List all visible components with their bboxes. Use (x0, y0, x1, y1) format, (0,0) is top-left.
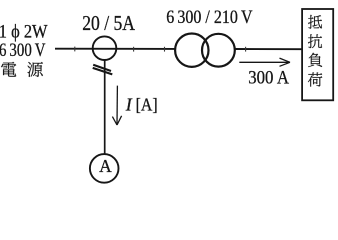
ammeter instrument circle (90, 154, 119, 183)
arrow: secondary current I direction (down) (116, 86, 118, 125)
source label kanji: DEN (electric) (1, 62, 16, 77)
svg-text:I: I (125, 94, 133, 114)
transformer T primary winding circle (175, 34, 208, 67)
svg-text:6 300 / 210 V: 6 300 / 210 V (166, 8, 253, 28)
CT secondary two-conductor slash mark 2 (93, 68, 113, 75)
svg-text:300 A: 300 A (248, 68, 289, 89)
wire: CT secondary drop to ammeter (104, 60, 106, 155)
svg-text:6 300 V: 6 300 V (0, 41, 46, 61)
junction tick on wire (mid-left) (133, 47, 135, 52)
arrow: load current direction 300A (239, 61, 290, 63)
svg-text:[A]: [A] (136, 94, 158, 114)
load kanji 3: FU (308, 53, 322, 67)
source label kanji: GEN (source) (27, 62, 42, 77)
junction tick on wire (mid-right) (164, 47, 166, 52)
load kanji 2: KOU (308, 34, 322, 48)
wire: source to transformer primary (through CT) (55, 48, 175, 50)
junction tick on wire (right) (245, 47, 247, 52)
transformer T secondary winding circle (202, 34, 235, 67)
load kanji 4: KA (308, 72, 322, 86)
svg-text:20 / 5A: 20 / 5A (82, 11, 135, 35)
load kanji 1: TEI (308, 15, 322, 29)
load box outline (resistive load) (302, 9, 333, 100)
current transformer CT 20/5A (circle on line) (93, 36, 117, 60)
svg-text:A: A (99, 156, 112, 176)
wire: transformer secondary to load box (235, 48, 302, 50)
CT secondary two-conductor slash mark 1 (93, 65, 111, 71)
svg-text:1 ϕ 2W: 1 ϕ 2W (0, 23, 48, 43)
junction tick on wire (left) (74, 47, 76, 52)
